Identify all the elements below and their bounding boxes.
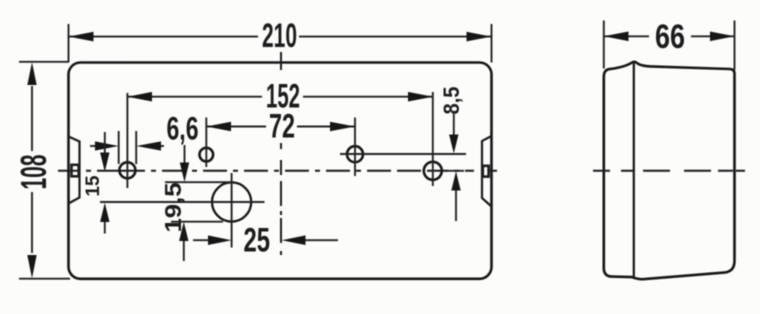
dimension 15 lower arrow <box>104 221 106 234</box>
svg-text:19,5: 19,5 <box>160 182 186 232</box>
dimension 25 right arrow <box>304 239 338 241</box>
dimension 66 extension lines <box>604 21 735 71</box>
dimension 66 line <box>604 35 735 37</box>
dimension 108 text (rotated) <box>13 155 54 190</box>
big 19.5 hole <box>212 182 251 221</box>
svg-text:8,5: 8,5 <box>439 87 464 115</box>
dimension 8,5 text (rotated) <box>439 87 464 115</box>
dimension 19,5 text (rotated) <box>160 182 186 232</box>
right mounting tab <box>482 136 492 207</box>
dimension 15 upper arrow <box>104 132 106 154</box>
dimension 108 extension lines <box>19 62 70 279</box>
dimension 8,5 lower arrow <box>455 190 457 221</box>
right 6.6 mounting hole <box>424 162 442 180</box>
svg-text:66: 66 <box>655 18 685 56</box>
dimension 210 arrowheads <box>69 32 94 42</box>
dimension 19,5 bottom tangent line <box>171 221 223 223</box>
dimension 19,5 upper arrow <box>184 145 186 164</box>
dimension 108 line <box>31 86 33 253</box>
dimension 210 extension lines <box>69 24 492 63</box>
right tab slot <box>483 166 489 177</box>
left hole vertical centerline / 152 extension line <box>126 93 128 188</box>
middle upper 6.6 hole <box>347 146 363 162</box>
dimension 72 arrowheads <box>206 122 231 132</box>
small hole vertical extension line <box>205 118 207 168</box>
dimension 6,6 left arrow <box>90 145 100 147</box>
side view body outline <box>604 62 735 279</box>
small upper hole near 6.6 label <box>200 148 214 162</box>
svg-text:210: 210 <box>262 17 297 55</box>
horizontal centerline of front view <box>58 170 497 172</box>
dimension 6,6 hole edge extension lines <box>119 131 137 164</box>
right hole vertical extension line <box>432 92 434 186</box>
dimension 66 arrowheads <box>604 32 629 42</box>
left tab slot <box>72 165 79 177</box>
left mounting tab <box>69 137 80 204</box>
right hole horizontal arm <box>445 170 464 172</box>
vertical centerline of front view <box>280 52 282 255</box>
dimension 8,5 upper arrow <box>453 114 455 136</box>
left 6.6 mounting hole <box>119 162 135 178</box>
dimension 108 arrowheads <box>27 62 36 85</box>
big hole horizontal centerline (15 reference) <box>100 201 265 203</box>
dimension 6,6 right arrow <box>157 145 164 147</box>
dimension 152 arrowheads <box>127 92 152 102</box>
big hole vertical centerline <box>231 173 233 248</box>
dimension 19,5 lower arrow <box>183 240 185 261</box>
dimension 152 line <box>127 96 433 98</box>
housing front outline <box>69 63 492 279</box>
svg-text:15: 15 <box>83 175 104 196</box>
dimension 15 text (rotated) <box>83 175 104 196</box>
dimension 25 left arrow <box>193 239 212 241</box>
svg-text:25: 25 <box>244 222 271 260</box>
dimension 72 line <box>206 126 355 128</box>
svg-text:6,6: 6,6 <box>167 111 199 147</box>
side view lens split line <box>633 62 635 277</box>
svg-text:108: 108 <box>13 155 54 190</box>
upper holes horizontal line (8.5 reference) <box>340 153 466 155</box>
dimension 19,5 top tangent line <box>165 181 232 183</box>
side view centerline <box>593 170 745 172</box>
middle hole vertical extension line <box>354 118 356 177</box>
svg-text:72: 72 <box>269 108 295 146</box>
dimension 210 line <box>69 36 492 38</box>
